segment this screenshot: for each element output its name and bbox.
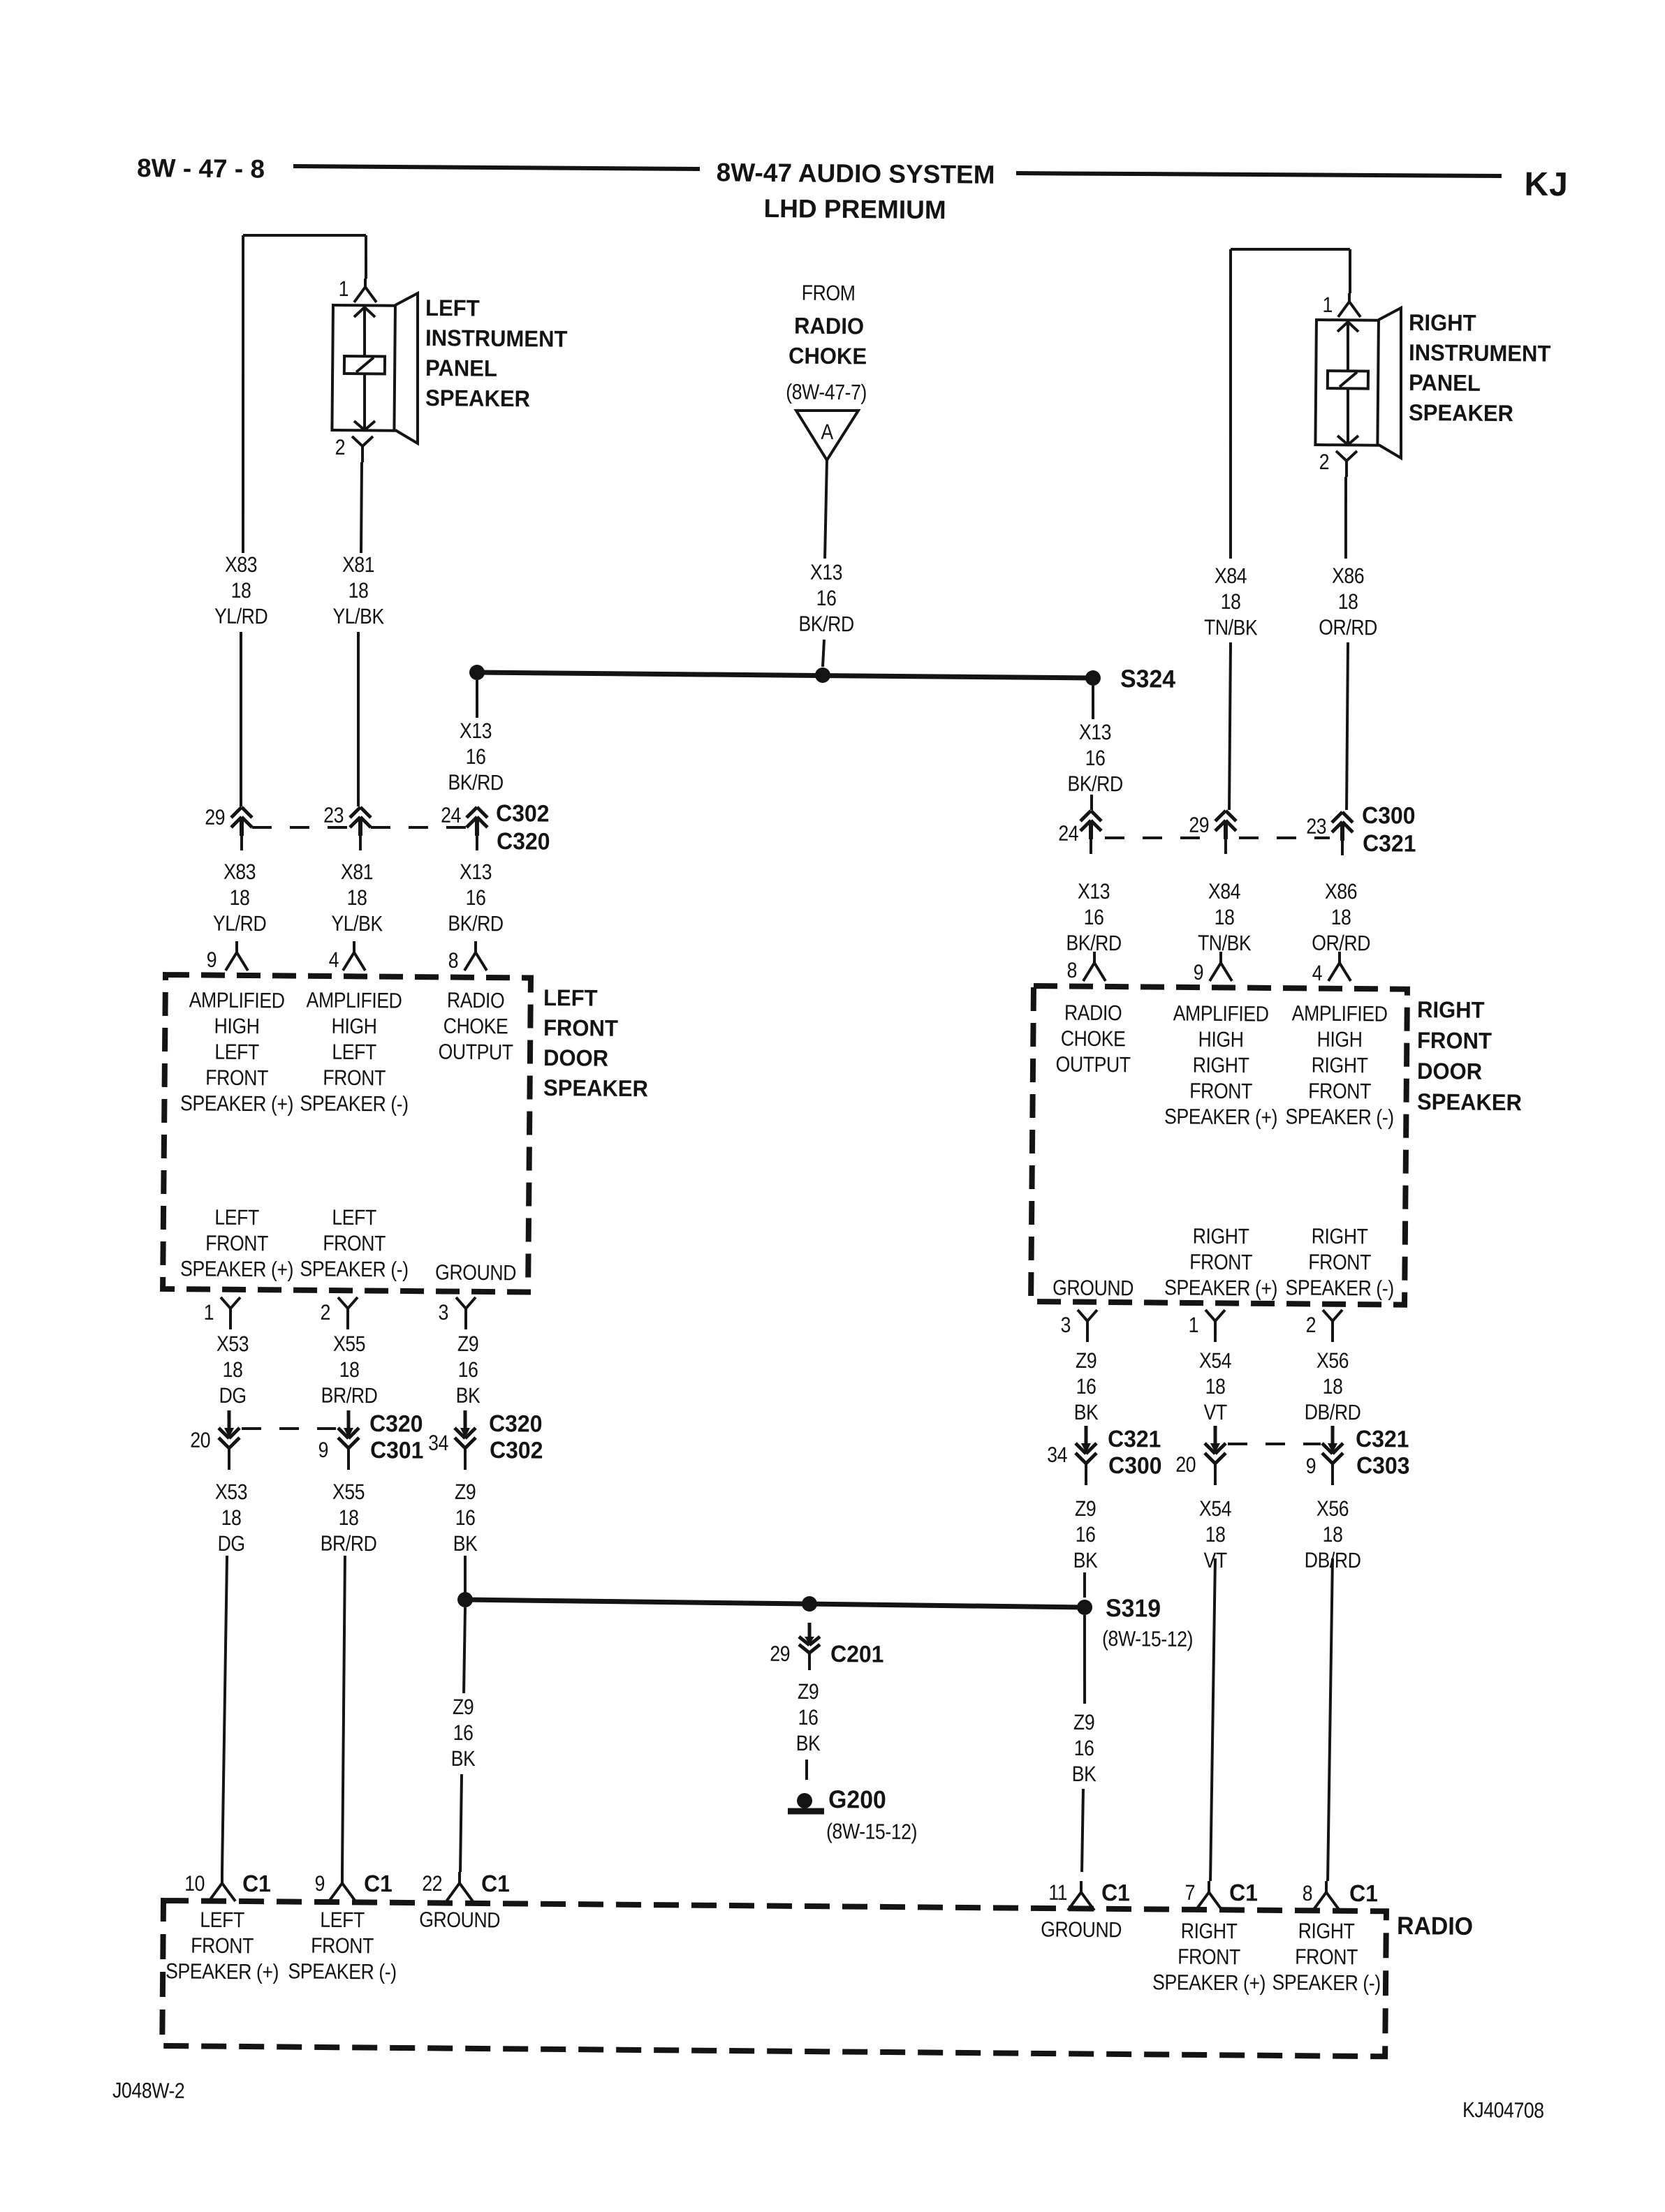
svg-text:BK: BK — [1072, 1762, 1096, 1787]
svg-text:SPEAKER (-): SPEAKER (-) — [288, 1960, 397, 1985]
svg-text:AMPLIFIED: AMPLIFIED — [306, 989, 402, 1014]
svg-text:C320: C320 — [497, 827, 550, 855]
svg-text:LEFT: LEFT — [332, 1040, 376, 1065]
svg-text:34: 34 — [1047, 1443, 1067, 1468]
svg-text:18: 18 — [347, 886, 367, 910]
svg-text:X56: X56 — [1316, 1349, 1349, 1373]
svg-text:2: 2 — [1306, 1313, 1316, 1337]
svg-text:X84: X84 — [1208, 880, 1241, 904]
svg-text:3: 3 — [1061, 1313, 1071, 1337]
svg-text:RIGHT: RIGHT — [1181, 1919, 1238, 1944]
svg-text:LEFT: LEFT — [214, 1206, 259, 1230]
svg-text:C1: C1 — [1229, 1879, 1258, 1905]
svg-text:BK/RD: BK/RD — [798, 612, 854, 637]
svg-text:18: 18 — [1331, 906, 1351, 930]
svg-text:OR/RD: OR/RD — [1312, 931, 1370, 956]
svg-text:FRONT: FRONT — [1308, 1251, 1371, 1275]
svg-text:18: 18 — [223, 1358, 243, 1382]
svg-text:18: 18 — [1205, 1375, 1226, 1399]
svg-text:C300: C300 — [1362, 802, 1416, 829]
svg-text:LEFT: LEFT — [543, 985, 598, 1011]
svg-text:RIGHT: RIGHT — [1312, 1225, 1368, 1249]
svg-text:HIGH: HIGH — [331, 1015, 376, 1039]
svg-text:BK/RD: BK/RD — [448, 771, 504, 795]
svg-text:18: 18 — [1221, 590, 1241, 614]
svg-text:SPEAKER (+): SPEAKER (+) — [180, 1257, 293, 1282]
svg-text:C321: C321 — [1356, 1425, 1409, 1452]
svg-text:20: 20 — [190, 1429, 210, 1453]
svg-text:Z9: Z9 — [798, 1680, 819, 1704]
svg-text:18: 18 — [339, 1506, 359, 1531]
svg-text:KJ404708: KJ404708 — [1462, 2098, 1544, 2123]
svg-text:S319: S319 — [1106, 1594, 1161, 1623]
svg-text:OR/RD: OR/RD — [1319, 616, 1377, 640]
svg-text:G200: G200 — [828, 1785, 886, 1814]
svg-text:2: 2 — [335, 436, 346, 459]
svg-text:18: 18 — [349, 579, 369, 603]
svg-text:16: 16 — [455, 1506, 476, 1531]
svg-text:8W-47 AUDIO SYSTEM: 8W-47 AUDIO SYSTEM — [717, 158, 995, 189]
svg-text:16: 16 — [1084, 906, 1104, 930]
svg-text:FRONT: FRONT — [1189, 1251, 1252, 1275]
svg-text:BK/RD: BK/RD — [1067, 772, 1123, 797]
svg-text:X13: X13 — [1078, 880, 1110, 904]
svg-text:BK: BK — [451, 1747, 476, 1771]
svg-text:(8W-47-7): (8W-47-7) — [786, 381, 867, 405]
svg-text:16: 16 — [1085, 746, 1106, 771]
svg-text:16: 16 — [1076, 1375, 1096, 1399]
svg-text:9: 9 — [1306, 1454, 1316, 1478]
svg-text:4: 4 — [329, 948, 339, 972]
svg-text:RADIO: RADIO — [447, 989, 505, 1013]
svg-text:CHOKE: CHOKE — [1061, 1027, 1126, 1052]
svg-text:8W - 47 - 8: 8W - 47 - 8 — [137, 154, 265, 184]
svg-text:8: 8 — [448, 949, 459, 973]
svg-text:A: A — [821, 420, 834, 444]
svg-text:10: 10 — [184, 1872, 205, 1896]
svg-text:16: 16 — [466, 886, 486, 910]
svg-text:18: 18 — [339, 1358, 360, 1382]
svg-text:FRONT: FRONT — [1295, 1945, 1358, 1970]
svg-text:18: 18 — [1215, 906, 1235, 930]
svg-text:Z9: Z9 — [1073, 1711, 1095, 1735]
svg-text:FRONT: FRONT — [205, 1066, 268, 1091]
svg-text:24: 24 — [441, 804, 461, 828]
svg-text:X13: X13 — [460, 719, 492, 744]
svg-text:X13: X13 — [1079, 721, 1111, 745]
svg-text:FROM: FROM — [802, 281, 856, 306]
svg-text:1: 1 — [1322, 293, 1333, 317]
svg-text:BK: BK — [456, 1384, 481, 1408]
svg-text:1: 1 — [204, 1301, 214, 1325]
svg-text:X84: X84 — [1215, 564, 1247, 589]
svg-text:FRONT: FRONT — [1308, 1079, 1371, 1104]
svg-text:FRONT: FRONT — [311, 1934, 374, 1959]
svg-text:2: 2 — [1319, 450, 1330, 474]
svg-text:SPEAKER (-): SPEAKER (-) — [1285, 1276, 1394, 1302]
svg-text:C1: C1 — [364, 1870, 393, 1896]
svg-text:16: 16 — [453, 1721, 474, 1746]
svg-text:RIGHT: RIGHT — [1417, 996, 1485, 1023]
svg-text:29: 29 — [1189, 813, 1209, 838]
svg-text:C1: C1 — [481, 1870, 510, 1896]
svg-text:X81: X81 — [342, 553, 374, 577]
svg-text:C302: C302 — [496, 799, 550, 827]
svg-text:24: 24 — [1058, 822, 1078, 846]
svg-text:Z9: Z9 — [457, 1332, 479, 1357]
svg-text:FRONT: FRONT — [323, 1232, 386, 1256]
svg-text:C1: C1 — [1349, 1880, 1378, 1906]
svg-text:1: 1 — [1189, 1313, 1199, 1337]
svg-text:GROUND: GROUND — [419, 1908, 500, 1933]
svg-text:Z9: Z9 — [455, 1480, 476, 1505]
svg-text:LEFT: LEFT — [332, 1206, 376, 1230]
svg-text:KJ: KJ — [1524, 166, 1569, 204]
svg-text:HIGH: HIGH — [1198, 1028, 1243, 1052]
svg-text:18: 18 — [230, 886, 250, 910]
svg-text:X54: X54 — [1199, 1497, 1232, 1521]
svg-text:SPEAKER: SPEAKER — [1409, 399, 1513, 426]
svg-text:SPEAKER (+): SPEAKER (+) — [1164, 1105, 1277, 1130]
svg-text:23: 23 — [1306, 815, 1326, 839]
svg-text:C302: C302 — [490, 1436, 543, 1463]
svg-text:29: 29 — [770, 1642, 790, 1667]
svg-text:LEFT: LEFT — [320, 1908, 365, 1933]
svg-text:BR/RD: BR/RD — [321, 1384, 378, 1408]
svg-text:LEFT: LEFT — [425, 295, 480, 321]
svg-text:C300: C300 — [1108, 1452, 1162, 1479]
svg-text:4: 4 — [1312, 961, 1323, 985]
svg-text:9: 9 — [207, 948, 217, 972]
svg-text:VT: VT — [1203, 1401, 1227, 1425]
svg-text:TN/BK: TN/BK — [1204, 616, 1258, 640]
svg-text:Z9: Z9 — [453, 1695, 474, 1720]
svg-text:J048W-2: J048W-2 — [112, 2079, 184, 2103]
svg-text:RADIO: RADIO — [1064, 1001, 1122, 1026]
svg-text:PANEL: PANEL — [1409, 369, 1481, 396]
svg-text:X13: X13 — [460, 860, 492, 885]
svg-text:16: 16 — [458, 1358, 478, 1382]
svg-text:7: 7 — [1184, 1881, 1195, 1905]
svg-text:RIGHT: RIGHT — [1409, 309, 1476, 336]
svg-text:SPEAKER (-): SPEAKER (-) — [1285, 1105, 1394, 1130]
svg-text:X81: X81 — [341, 860, 373, 885]
svg-text:FRONT: FRONT — [1417, 1027, 1492, 1054]
svg-text:BK: BK — [1073, 1549, 1098, 1573]
svg-text:(8W-15-12): (8W-15-12) — [826, 1820, 917, 1844]
svg-text:X86: X86 — [1332, 564, 1364, 589]
svg-text:PANEL: PANEL — [425, 355, 497, 381]
svg-text:HIGH: HIGH — [1316, 1028, 1362, 1052]
svg-text:AMPLIFIED: AMPLIFIED — [1292, 1002, 1388, 1027]
svg-text:GROUND: GROUND — [1041, 1918, 1122, 1942]
svg-text:16: 16 — [466, 745, 486, 769]
svg-text:X86: X86 — [1325, 880, 1357, 904]
svg-text:16: 16 — [816, 587, 837, 611]
svg-text:C321: C321 — [1363, 829, 1416, 857]
svg-text:FRONT: FRONT — [543, 1015, 619, 1041]
svg-text:RIGHT: RIGHT — [1193, 1054, 1249, 1078]
svg-text:LEFT: LEFT — [214, 1040, 259, 1065]
svg-text:8: 8 — [1066, 959, 1077, 982]
svg-text:AMPLIFIED: AMPLIFIED — [189, 989, 285, 1014]
svg-text:X83: X83 — [225, 553, 257, 577]
svg-text:11: 11 — [1048, 1881, 1067, 1905]
svg-text:29: 29 — [205, 806, 225, 830]
svg-text:YL/RD: YL/RD — [214, 605, 268, 629]
svg-text:BK/RD: BK/RD — [448, 912, 504, 936]
svg-text:FRONT: FRONT — [191, 1934, 254, 1959]
svg-text:OUTPUT: OUTPUT — [1055, 1053, 1130, 1077]
svg-text:FRONT: FRONT — [205, 1232, 268, 1256]
svg-text:16: 16 — [1074, 1737, 1094, 1761]
svg-text:RADIO: RADIO — [1397, 1912, 1473, 1940]
svg-text:SPEAKER: SPEAKER — [543, 1075, 648, 1101]
svg-text:18: 18 — [1205, 1523, 1226, 1547]
svg-text:C321: C321 — [1108, 1425, 1161, 1452]
svg-text:1: 1 — [339, 277, 349, 301]
svg-text:BK: BK — [1074, 1401, 1099, 1425]
svg-text:18: 18 — [231, 579, 251, 603]
svg-text:SPEAKER (-): SPEAKER (-) — [300, 1092, 409, 1117]
svg-text:X53: X53 — [217, 1332, 249, 1357]
svg-text:16: 16 — [1076, 1523, 1096, 1547]
svg-text:SPEAKER: SPEAKER — [425, 385, 530, 411]
svg-text:GROUND: GROUND — [435, 1261, 516, 1285]
svg-text:SPEAKER: SPEAKER — [1417, 1089, 1522, 1115]
svg-text:X83: X83 — [223, 860, 256, 885]
svg-text:FRONT: FRONT — [1178, 1945, 1240, 1970]
svg-text:16: 16 — [798, 1706, 818, 1730]
svg-text:C320: C320 — [369, 1410, 423, 1437]
svg-text:FRONT: FRONT — [1189, 1079, 1252, 1104]
svg-text:SPEAKER (+): SPEAKER (+) — [166, 1960, 279, 1985]
svg-text:34: 34 — [428, 1431, 448, 1456]
svg-text:LHD PREMIUM: LHD PREMIUM — [763, 194, 946, 224]
svg-text:20: 20 — [1175, 1453, 1196, 1477]
svg-text:AMPLIFIED: AMPLIFIED — [1173, 1002, 1269, 1027]
svg-text:18: 18 — [1323, 1375, 1343, 1399]
svg-text:18: 18 — [1323, 1523, 1343, 1547]
svg-text:2: 2 — [320, 1301, 330, 1325]
svg-text:C301: C301 — [370, 1436, 424, 1463]
svg-text:C1: C1 — [242, 1870, 271, 1896]
svg-text:C303: C303 — [1356, 1452, 1410, 1479]
svg-text:OUTPUT: OUTPUT — [438, 1040, 513, 1065]
svg-text:(8W-15-12): (8W-15-12) — [1102, 1627, 1193, 1651]
svg-text:BK: BK — [453, 1532, 478, 1556]
svg-text:C1: C1 — [1101, 1879, 1130, 1905]
svg-text:Z9: Z9 — [1075, 1497, 1096, 1521]
svg-text:X13: X13 — [810, 561, 842, 585]
svg-text:S324: S324 — [1120, 665, 1176, 693]
svg-text:BR/RD: BR/RD — [321, 1532, 377, 1556]
svg-text:DB/RD: DB/RD — [1305, 1401, 1361, 1425]
svg-text:18: 18 — [1338, 590, 1358, 614]
svg-text:INSTRUMENT: INSTRUMENT — [425, 325, 568, 352]
svg-text:8: 8 — [1303, 1882, 1313, 1905]
svg-text:RIGHT: RIGHT — [1298, 1919, 1355, 1944]
svg-text:DG: DG — [217, 1532, 244, 1556]
svg-text:X55: X55 — [333, 1332, 365, 1357]
svg-text:CHOKE: CHOKE — [789, 343, 867, 369]
svg-text:DG: DG — [219, 1384, 246, 1408]
svg-text:Z9: Z9 — [1076, 1349, 1097, 1373]
svg-text:FRONT: FRONT — [323, 1066, 386, 1091]
svg-text:23: 23 — [323, 804, 344, 828]
svg-text:YL/BK: YL/BK — [331, 912, 383, 936]
svg-text:C320: C320 — [489, 1410, 543, 1437]
svg-text:9: 9 — [1194, 961, 1204, 985]
svg-text:GROUND: GROUND — [1052, 1276, 1134, 1301]
svg-text:SPEAKER (+): SPEAKER (+) — [180, 1091, 293, 1116]
svg-text:9: 9 — [314, 1872, 325, 1896]
svg-text:CHOKE: CHOKE — [443, 1015, 508, 1039]
svg-text:X54: X54 — [1199, 1349, 1232, 1373]
svg-text:YL/BK: YL/BK — [332, 605, 384, 629]
svg-text:X53: X53 — [215, 1480, 247, 1505]
svg-text:C201: C201 — [830, 1640, 884, 1667]
svg-text:SPEAKER (+): SPEAKER (+) — [1164, 1276, 1277, 1301]
svg-text:DOOR: DOOR — [543, 1045, 608, 1071]
svg-text:HIGH: HIGH — [214, 1015, 260, 1039]
svg-text:RIGHT: RIGHT — [1312, 1054, 1368, 1078]
svg-text:X56: X56 — [1316, 1497, 1349, 1521]
svg-text:YL/RD: YL/RD — [213, 912, 267, 936]
svg-text:BK: BK — [796, 1732, 821, 1756]
svg-text:LEFT: LEFT — [200, 1908, 244, 1933]
svg-text:DOOR: DOOR — [1417, 1058, 1482, 1084]
svg-text:SPEAKER (+): SPEAKER (+) — [1152, 1970, 1266, 1996]
svg-text:SPEAKER (-): SPEAKER (-) — [1272, 1971, 1381, 1996]
svg-text:TN/BK: TN/BK — [1198, 931, 1252, 956]
svg-text:RADIO: RADIO — [794, 313, 864, 339]
svg-text:9: 9 — [318, 1438, 328, 1462]
svg-text:X55: X55 — [332, 1480, 365, 1505]
svg-text:SPEAKER (-): SPEAKER (-) — [300, 1258, 409, 1283]
svg-text:INSTRUMENT: INSTRUMENT — [1409, 339, 1551, 367]
svg-text:22: 22 — [422, 1872, 442, 1896]
svg-text:18: 18 — [221, 1506, 242, 1531]
svg-text:RIGHT: RIGHT — [1193, 1225, 1249, 1249]
svg-text:3: 3 — [438, 1301, 448, 1325]
